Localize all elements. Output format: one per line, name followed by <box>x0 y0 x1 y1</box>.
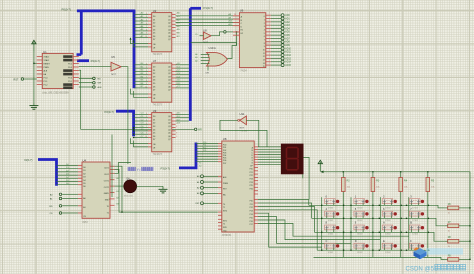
wires U8 left from bus <box>196 143 218 145</box>
wire U8 row2 <box>258 203 312 218</box>
wire U1 to U5 input <box>79 66 111 68</box>
wire U8 col2 <box>258 217 351 244</box>
svg-text:U8: U8 <box>223 137 227 141</box>
svg-text:AD4: AD4 <box>285 27 290 30</box>
svg-text:XTAL1: XTAL1 <box>44 56 50 59</box>
resistor R5 <box>427 172 429 258</box>
junctions key C <box>321 250 322 251</box>
svg-text:D6: D6 <box>153 36 155 38</box>
svg-text:U7: U7 <box>153 59 157 63</box>
svg-text:AD7: AD7 <box>285 37 290 40</box>
wires U2 right long to U6 <box>176 15 240 17</box>
wire U8 row4 <box>258 210 317 250</box>
svg-text:D3: D3 <box>153 76 155 78</box>
svg-text:T0: T0 <box>223 204 225 206</box>
svg-text:74154: 74154 <box>240 71 247 73</box>
wires U4 control <box>62 193 78 195</box>
junctions U9 bus <box>133 127 134 128</box>
wire U8 col1 <box>258 213 322 247</box>
wires U9 right to bus <box>176 113 189 115</box>
power symbol above U1 <box>33 42 35 52</box>
svg-text:Q4: Q4 <box>168 129 171 131</box>
svg-text:P14: P14 <box>250 214 253 216</box>
svg-text:P25: P25 <box>250 185 253 187</box>
junctions key 5 <box>350 218 351 219</box>
wire U4 clk up to annotation <box>115 163 132 174</box>
svg-text:P3.0: P3.0 <box>68 78 72 80</box>
svg-text:D4: D4 <box>83 180 85 182</box>
not-gate U5 <box>111 62 121 71</box>
wires U9 control pins <box>131 138 149 143</box>
svg-text:P3.1: P3.1 <box>68 81 72 83</box>
junction R7 rail <box>469 225 470 226</box>
svg-text:U6: U6 <box>240 8 244 12</box>
svg-text:D2: D2 <box>153 73 155 75</box>
bus wire vertical U6 column <box>189 8 192 121</box>
junctions key 2 <box>379 205 380 206</box>
button key C <box>325 243 336 248</box>
wire U8 col3 <box>258 220 380 240</box>
svg-text:D4: D4 <box>153 129 155 131</box>
svg-text:1k: 1k <box>448 230 450 232</box>
svg-text:INT1: INT1 <box>223 220 227 222</box>
svg-text:D2: D2 <box>153 123 155 125</box>
svg-text:XTAL2: XTAL2 <box>44 59 50 62</box>
svg-text:P0.3: P0.3 <box>68 67 72 69</box>
svg-text:D0: D0 <box>153 116 155 118</box>
MCU U1 <box>42 53 73 88</box>
svg-text:3: 3 <box>264 26 265 28</box>
svg-text:15: 15 <box>263 66 265 68</box>
svg-text:T2: T2 <box>223 224 225 226</box>
svg-text:C: C <box>326 239 328 243</box>
svg-text:D6: D6 <box>153 136 155 138</box>
svg-text:D2: D2 <box>83 173 85 175</box>
svg-text:D4: D4 <box>153 80 155 82</box>
svg-text:23: 23 <box>234 14 236 16</box>
svg-text:P24: P24 <box>250 182 253 184</box>
svg-text:P1(0-7): P1(0-7) <box>204 6 213 10</box>
button key F <box>409 243 420 248</box>
wire display bottom stub <box>302 174 304 178</box>
junctions key 0 <box>321 205 322 206</box>
button key E <box>382 243 393 248</box>
wires U10A inputs <box>201 53 210 55</box>
button key 3 <box>409 199 420 204</box>
junctions key 6 <box>379 218 380 219</box>
junctions key 1 <box>350 205 351 206</box>
latch U2 <box>152 13 172 52</box>
svg-text:P23: P23 <box>250 179 253 181</box>
svg-text:12102: 12102 <box>385 220 391 222</box>
wire U10A output route <box>227 32 236 59</box>
bus stub P2 at U1 right <box>77 59 89 62</box>
svg-text:RD: RD <box>49 206 53 208</box>
row bus 4 <box>317 249 430 251</box>
svg-text:Q6: Q6 <box>168 86 171 88</box>
svg-text:8: 8 <box>176 133 177 135</box>
svg-text:12102: 12102 <box>357 220 363 222</box>
svg-text:A0: A0 <box>83 197 85 200</box>
terminal after U8b <box>224 31 227 34</box>
svg-text:11: 11 <box>263 53 265 55</box>
latch U9 <box>152 113 172 152</box>
svg-text:A: A <box>383 221 385 225</box>
svg-text:Q3: Q3 <box>168 126 171 128</box>
svg-text:AT89C51: AT89C51 <box>222 234 232 237</box>
row bus 3 <box>314 232 444 241</box>
resistor R3 <box>372 172 374 258</box>
svg-text:12102: 12102 <box>328 220 334 222</box>
button key 7 <box>409 211 420 216</box>
bus wire elbow to U4 left <box>38 160 57 186</box>
svg-text:P10: P10 <box>250 200 253 202</box>
wire U8 row3 <box>258 206 314 232</box>
svg-text:AD15: AD15 <box>285 64 291 67</box>
svg-text:12102: 12102 <box>385 207 391 209</box>
svg-text:0: 0 <box>264 16 265 18</box>
svg-text:WR: WR <box>98 83 102 85</box>
svg-text:U11: U11 <box>240 112 245 116</box>
svg-text:P1.0: P1.0 <box>44 78 48 80</box>
junctions key A <box>379 232 380 233</box>
wire vcc rail <box>320 172 470 260</box>
wire sounder to ground <box>137 185 163 187</box>
svg-text:P07: P07 <box>223 163 226 165</box>
wire U8 row1 <box>258 200 309 206</box>
bus wire elbow to U9 left <box>116 111 134 136</box>
svg-text:12102: 12102 <box>357 234 363 236</box>
svg-text:14: 14 <box>263 63 265 65</box>
svg-text:12102: 12102 <box>357 207 363 209</box>
svg-text:Q7: Q7 <box>168 39 171 41</box>
svg-text:P2(0-7): P2(0-7) <box>91 59 100 63</box>
svg-text:D5: D5 <box>83 183 85 185</box>
svg-text:P17: P17 <box>250 224 253 226</box>
svg-text:Q3: Q3 <box>168 26 171 28</box>
svg-text:E1: E1 <box>241 30 243 32</box>
wire U8b output to terminal <box>211 32 223 36</box>
svg-text:U5: U5 <box>111 55 115 59</box>
svg-text:D0: D0 <box>83 167 85 169</box>
bus wire top horizontal <box>77 9 135 12</box>
junctions key 3 <box>406 205 407 206</box>
7-segment display <box>281 144 304 175</box>
button key 8 <box>325 225 336 230</box>
svg-text:Q2: Q2 <box>168 123 171 125</box>
svg-text:74LS373: 74LS373 <box>153 154 163 156</box>
svg-text:Q1: Q1 <box>168 19 171 21</box>
button key A <box>382 225 393 230</box>
svg-text:P22: P22 <box>250 175 253 177</box>
svg-text:5: 5 <box>264 33 265 35</box>
wire below U10A <box>207 66 209 70</box>
svg-text:D7: D7 <box>153 139 155 141</box>
svg-text:Q0: Q0 <box>168 67 171 69</box>
svg-text:Q4: Q4 <box>168 80 171 82</box>
svg-text:Q5: Q5 <box>168 33 171 35</box>
button key D <box>354 243 365 248</box>
svg-text:P33: P33 <box>203 150 206 152</box>
column wires keypad <box>321 197 323 250</box>
svg-text:E: E <box>383 239 385 243</box>
svg-text:Q6: Q6 <box>168 36 171 38</box>
svg-text:Q3: Q3 <box>168 76 171 78</box>
svg-text:AD13: AD13 <box>285 57 291 60</box>
svg-text:AD0: AD0 <box>285 14 290 17</box>
svg-text:D3: D3 <box>153 126 155 128</box>
svg-text:AD8: AD8 <box>285 41 290 44</box>
resistor R2 <box>342 172 344 258</box>
svg-text:CLK1: CLK1 <box>104 168 109 170</box>
svg-text:AD5: AD5 <box>285 31 290 34</box>
bottom rail <box>314 257 445 259</box>
svg-text:Q1: Q1 <box>168 70 171 72</box>
terminals U4 control <box>59 193 62 196</box>
terminal at end of W1 <box>194 128 197 131</box>
svg-text:AD10: AD10 <box>285 47 291 50</box>
svg-text:RST: RST <box>14 78 19 81</box>
svg-text:Q4: Q4 <box>168 29 171 31</box>
svg-text:AD2: AD2 <box>285 21 290 24</box>
resistor R9 <box>448 258 459 262</box>
svg-text:OR: OR <box>206 73 210 75</box>
svg-text:10: 10 <box>263 49 265 51</box>
svg-text:6: 6 <box>176 126 177 128</box>
button key 0 <box>325 199 336 204</box>
resistor R8 <box>448 239 459 243</box>
junction R9 rail <box>469 259 470 260</box>
svg-text:U2: U2 <box>153 9 157 13</box>
svg-text:RESET: RESET <box>44 64 51 66</box>
MCU U8 <box>222 141 254 232</box>
svg-text:GATE: GATE <box>104 192 110 195</box>
svg-text:P26: P26 <box>250 188 253 190</box>
svg-text:D1: D1 <box>153 119 155 121</box>
button key 4 <box>325 211 336 216</box>
svg-text:12102: 12102 <box>412 234 418 236</box>
svg-text:P1.1: P1.1 <box>44 81 48 83</box>
ground at sounder <box>162 186 164 189</box>
svg-text:E2: E2 <box>241 33 243 35</box>
svg-text:12102: 12102 <box>328 252 334 254</box>
svg-text:12102: 12102 <box>328 207 334 209</box>
svg-text:D1: D1 <box>153 70 155 72</box>
svg-text:12: 12 <box>263 56 265 58</box>
junctions key D <box>350 250 351 251</box>
junction XOR net <box>236 31 237 32</box>
svg-text:7: 7 <box>176 129 177 131</box>
wires U7 control pins <box>131 89 149 94</box>
svg-text:12102: 12102 <box>357 252 363 254</box>
svg-text:NOT: NOT <box>111 74 116 76</box>
svg-text:D0: D0 <box>153 67 155 69</box>
terminals U8 left <box>201 175 204 178</box>
watermark logo cube <box>414 247 427 259</box>
svg-text:A1: A1 <box>83 206 85 209</box>
svg-text:U9: U9 <box>153 109 157 113</box>
svg-text:PSEN: PSEN <box>223 183 229 185</box>
svg-text:Q5: Q5 <box>168 83 171 85</box>
svg-text:P15: P15 <box>250 217 253 219</box>
svg-text:P0(0-7): P0(0-7) <box>62 8 71 12</box>
wire terminal to U6 pin <box>227 31 240 33</box>
wires U6 right to terminals <box>271 14 281 16</box>
svg-text:D7: D7 <box>153 90 155 92</box>
junctions key 9 <box>350 232 351 233</box>
or-gate U10A <box>207 52 228 66</box>
sounder LS1 <box>124 180 137 193</box>
wire U1 P-pin to W1 net <box>79 70 194 129</box>
svg-text:12102: 12102 <box>385 234 391 236</box>
svg-text:1k: 1k <box>448 213 450 215</box>
svg-text:74LS373: 74LS373 <box>153 54 163 56</box>
svg-text:CLK2: CLK2 <box>104 174 109 176</box>
svg-text:AD12: AD12 <box>285 54 291 57</box>
svg-text:13: 13 <box>263 59 265 61</box>
svg-text:9: 9 <box>176 136 177 138</box>
bus wire elbow to U8 left <box>179 143 196 168</box>
svg-text:D5: D5 <box>153 33 155 35</box>
svg-text:WR: WR <box>198 130 202 132</box>
svg-text:Q2: Q2 <box>168 23 171 25</box>
svg-text:D2: D2 <box>153 23 155 25</box>
wire U8 col4 <box>258 223 409 236</box>
button key 2 <box>382 199 393 204</box>
svg-text:CSDN @51: CSDN @51 <box>406 265 439 272</box>
svg-text:U10:A: U10:A <box>209 46 216 50</box>
junction W1 at U9 bus <box>133 129 134 130</box>
wire display common <box>304 157 310 199</box>
wires U2 left from bus <box>134 13 148 15</box>
wire U11 output left-down <box>220 120 267 147</box>
svg-text:SND-400: SND-400 <box>124 196 134 198</box>
svg-text:Q0: Q0 <box>168 16 171 18</box>
svg-text:D1: D1 <box>83 170 85 172</box>
svg-text:D6: D6 <box>153 86 155 88</box>
svg-text:6: 6 <box>264 36 265 38</box>
wire power to U1 pins <box>33 51 35 103</box>
wire vertical left of U4 <box>111 135 113 198</box>
svg-text:9: 9 <box>264 46 265 48</box>
svg-text:D: D <box>355 239 357 243</box>
svg-text:1k: 1k <box>448 246 450 248</box>
wire U8b input <box>200 35 204 37</box>
junctions key 4 <box>321 218 322 219</box>
svg-text:P12: P12 <box>250 207 253 209</box>
svg-text:Q5: Q5 <box>168 133 171 135</box>
wire U11 input right-down <box>246 120 258 147</box>
not-gate U8b <box>203 32 211 40</box>
latch U7 <box>152 63 172 102</box>
svg-text:D6: D6 <box>83 186 85 188</box>
svg-text:12102: 12102 <box>412 207 418 209</box>
svg-text:Q7: Q7 <box>168 90 171 92</box>
svg-text:AD1: AD1 <box>285 17 290 20</box>
svg-text:2: 2 <box>264 23 265 25</box>
svg-text:D5: D5 <box>153 83 155 85</box>
wires U9 left from bus <box>134 113 148 115</box>
terminal RST left of U1 <box>21 78 24 81</box>
wires U4 left from bus <box>57 165 78 167</box>
svg-text:T0: T0 <box>107 206 109 208</box>
svg-text:8: 8 <box>264 43 265 45</box>
svg-text:D7: D7 <box>153 39 155 41</box>
svg-text:AD14: AD14 <box>285 61 291 64</box>
resistor R6 <box>448 206 459 210</box>
svg-text:U1: U1 <box>43 50 47 54</box>
button key 5 <box>354 211 365 216</box>
wire U4 out to U8 row B <box>115 166 123 212</box>
button key 9 <box>354 225 365 230</box>
bus wire vertical to U2/U7 left <box>133 10 136 89</box>
wires U7 right to bus <box>176 64 189 66</box>
svg-text:74LS373: 74LS373 <box>153 105 163 107</box>
svg-text:P3(0-7): P3(0-7) <box>161 166 170 170</box>
wires U7 left from bus <box>134 64 148 66</box>
svg-text:CS: CS <box>49 213 53 215</box>
power symbol keypad <box>319 162 321 172</box>
svg-text:PSEN: PSEN <box>44 67 50 69</box>
svg-text:12102: 12102 <box>412 220 418 222</box>
svg-text:P11: P11 <box>250 204 253 206</box>
svg-text:D(0-7): D(0-7) <box>25 158 33 162</box>
svg-text:P21: P21 <box>250 172 253 174</box>
terminals U6 outputs <box>281 14 284 17</box>
junction at U1 power <box>33 63 34 64</box>
svg-text:P13: P13 <box>250 211 253 213</box>
svg-text:D0: D0 <box>153 16 155 18</box>
button key 1 <box>354 199 365 204</box>
svg-text:RD: RD <box>98 78 102 80</box>
svg-text:AD9: AD9 <box>285 44 290 47</box>
junctions key 7 <box>406 218 407 219</box>
svg-text:Q0: Q0 <box>168 116 171 118</box>
svg-text:12102: 12102 <box>385 252 391 254</box>
button key 6 <box>382 211 393 216</box>
svg-text:Q6: Q6 <box>168 136 171 138</box>
wires U1 right to terminals <box>79 77 93 79</box>
svg-text:D4: D4 <box>153 29 155 31</box>
timer U4 <box>82 162 110 218</box>
decoder U6 <box>239 13 265 68</box>
svg-text:Y=: Y= <box>137 168 141 172</box>
svg-text:Q2: Q2 <box>168 73 171 75</box>
svg-text:Q7: Q7 <box>168 139 171 141</box>
wires U8 to display <box>258 146 281 148</box>
svg-text:chip_t89_GB2+BUS8A: chip_t89_GB2+BUS8A <box>42 91 69 95</box>
svg-text:U4: U4 <box>83 158 87 162</box>
svg-text:T1: T1 <box>107 212 109 214</box>
button key B <box>409 225 420 230</box>
svg-text:B: B <box>410 221 412 225</box>
junctions key 8 <box>321 232 322 233</box>
svg-text:D1: D1 <box>153 19 155 21</box>
junctions key E <box>379 250 380 251</box>
ground below U1 <box>33 103 35 106</box>
svg-text:AD11: AD11 <box>285 51 291 54</box>
svg-text:ALE: ALE <box>98 86 103 89</box>
row bus 1 <box>309 205 445 208</box>
junctions key F <box>406 250 407 251</box>
svg-text:P0.2: P0.2 <box>68 64 72 66</box>
svg-text:D3: D3 <box>83 177 85 179</box>
resistor R4 <box>400 172 402 258</box>
row bus 2 <box>312 218 445 226</box>
watermark highlight bar <box>426 248 463 254</box>
svg-text:1: 1 <box>264 20 265 22</box>
resistor R7 <box>448 224 459 228</box>
